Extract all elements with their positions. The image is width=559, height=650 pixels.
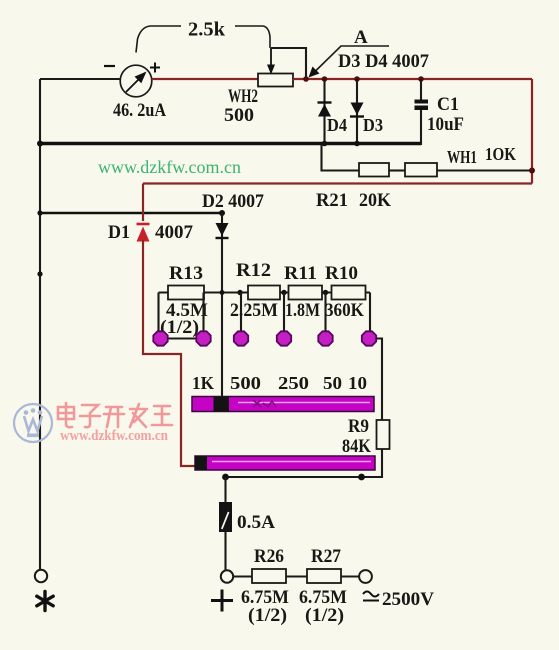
svg-text:0.5A: 0.5A — [237, 512, 275, 533]
svg-text:R26: R26 — [254, 546, 284, 567]
svg-text:1OK: 1OK — [485, 144, 516, 164]
label A with leader arrow — [309, 27, 390, 78]
wire R21 branch from bus — [322, 145, 360, 171]
wire resistor chain — [159, 291, 371, 293]
svg-text:10uF: 10uF — [427, 114, 464, 135]
diode D3 — [350, 79, 364, 144]
svg-text:R27: R27 — [311, 546, 341, 567]
node common rail left — [222, 474, 229, 481]
meter plus terminal label — [150, 63, 160, 73]
svg-text:360K: 360K — [325, 300, 364, 321]
diode D1 red — [137, 224, 150, 242]
meter M1 46.2uA — [120, 65, 152, 97]
node at left second bus — [37, 210, 42, 215]
svg-text:1K: 1K — [192, 373, 214, 393]
potentiometer WH2 500 — [258, 48, 293, 87]
wire second bus to D2 — [40, 212, 222, 215]
wire fuse to terminal — [224, 532, 226, 570]
wire terminal to R26 — [234, 575, 253, 577]
watermark chinese char 5 — [152, 406, 172, 425]
diode D2 — [216, 213, 229, 397]
svg-text:2500V: 2500V — [382, 589, 434, 610]
svg-text:D3: D3 — [363, 115, 383, 135]
annotation bracket right of 2.5k — [235, 26, 270, 48]
svg-text:84K: 84K — [342, 436, 371, 457]
terminal common star — [35, 570, 47, 582]
wire WH2 wiper loop — [271, 48, 306, 79]
resistor R10 — [332, 286, 366, 300]
switch contact 1 — [153, 331, 167, 345]
watermark logo dots — [24, 408, 43, 437]
resistor R9 — [377, 420, 390, 449]
wire R26 to R27 — [286, 575, 307, 577]
watermark chinese char 4 — [130, 404, 147, 427]
node WH1 right rail — [529, 168, 535, 174]
node common rail right — [358, 474, 365, 481]
svg-text:D4: D4 — [327, 115, 347, 135]
node chain tap5 — [323, 290, 328, 295]
svg-text:R12: R12 — [236, 260, 271, 281]
svg-text:R13: R13 — [169, 263, 203, 284]
meter minus terminal label — [104, 65, 115, 67]
node D3 top — [354, 76, 360, 82]
resistor R11 — [289, 286, 323, 300]
resistor R26 — [252, 569, 286, 583]
switch contact 6 — [362, 331, 376, 345]
svg-text:www.dzkfw.com.cn: www.dzkfw.com.cn — [60, 428, 169, 444]
svg-text:WH1: WH1 — [447, 147, 477, 167]
svg-text:D2 4007: D2 4007 — [202, 191, 264, 212]
svg-text:(1/2): (1/2) — [305, 605, 344, 626]
wire contact6 to R9 column — [377, 339, 383, 421]
wire common rail to fuse — [224, 477, 226, 502]
wire R27 to HV terminal — [341, 575, 359, 577]
node chain D2 crossing — [220, 290, 225, 295]
svg-text:250: 250 — [278, 373, 309, 393]
svg-text:2.25M: 2.25M — [230, 300, 278, 321]
resistor R12 — [248, 286, 280, 300]
wire thick bus — [40, 142, 421, 146]
node chain tap3 — [237, 290, 242, 295]
label star asterisk — [37, 592, 53, 611]
switch contact 3 — [234, 331, 248, 345]
wire red bottom horizontal — [143, 182, 532, 184]
wire red D1 branch upper — [142, 184, 144, 222]
svg-text:46. 2uA: 46. 2uA — [113, 100, 166, 121]
svg-text:R21: R21 — [316, 190, 348, 211]
node C1 top — [418, 76, 424, 82]
fuse 0.5A — [219, 502, 232, 532]
node D2 top — [219, 210, 225, 216]
wire red D1 branch lower with step — [143, 240, 196, 466]
svg-text:D1: D1 — [108, 222, 130, 243]
node D4 top — [322, 76, 328, 82]
resistor R27 — [307, 569, 341, 583]
wire red WH2 to right rail — [293, 78, 532, 80]
svg-text:C1: C1 — [437, 94, 459, 115]
wire contact1 to contact2 link — [167, 337, 197, 339]
resistor R13 — [168, 286, 204, 300]
wire red meter to WH2 — [152, 78, 259, 80]
label approx symbol — [363, 592, 379, 601]
label plus sign — [211, 590, 233, 612]
node A junction — [303, 76, 309, 82]
switch contact 2 — [196, 331, 210, 345]
svg-text:R10: R10 — [325, 263, 358, 284]
svg-text:(1/2): (1/2) — [248, 605, 287, 626]
svg-text:1.8M: 1.8M — [285, 300, 320, 321]
svg-text:500: 500 — [230, 373, 261, 393]
switch contact 5 — [318, 331, 332, 345]
rheostat WH1 — [405, 163, 437, 177]
watermark chinese char 1 — [58, 403, 74, 427]
node D4 at bus — [322, 141, 328, 147]
svg-text:R11: R11 — [284, 263, 317, 284]
wire red right vertical rail — [531, 79, 533, 184]
wire left vertical rail — [39, 79, 41, 570]
wire R9 bottom to common rail — [226, 449, 383, 477]
wire R21 to WH1 — [389, 169, 405, 171]
watermark chinese char 2 — [80, 405, 100, 427]
node at left bus junction — [37, 141, 43, 147]
svg-text:20K: 20K — [359, 190, 391, 211]
svg-text:D3 D4 4007: D3 D4 4007 — [338, 51, 429, 72]
watermark logo circle — [14, 404, 52, 442]
wire tap verticals to contacts — [159, 293, 371, 333]
svg-text:WH2: WH2 — [228, 86, 258, 107]
watermark chinese char 3 — [104, 407, 124, 427]
resistor R21 — [359, 163, 389, 177]
terminal plus — [221, 570, 233, 582]
wire top left horizontal — [40, 78, 120, 80]
capacitor C1 10uF — [415, 79, 429, 145]
node on left rail — [37, 271, 42, 276]
svg-text:www.dzkfw.com.cn: www.dzkfw.com.cn — [98, 157, 241, 177]
switch wafer bar 2 — [195, 456, 375, 470]
svg-text:4007: 4007 — [155, 222, 194, 243]
switch contact 4 — [277, 331, 291, 345]
svg-text:R9: R9 — [348, 416, 369, 437]
switch wafer bar 1 — [192, 397, 374, 412]
svg-text:10: 10 — [348, 373, 367, 393]
diode D4 — [318, 79, 332, 144]
svg-text:50: 50 — [323, 373, 342, 393]
wire WH1 to right rail — [437, 169, 531, 171]
terminal HV 2500V — [359, 570, 372, 583]
node chain tap4 — [281, 290, 286, 295]
annotation bracket left of 2.5k — [136, 26, 181, 53]
node D3 at bus — [354, 141, 360, 147]
svg-text:A: A — [354, 27, 368, 48]
svg-text:2.5k: 2.5k — [188, 19, 226, 41]
svg-text:500: 500 — [224, 105, 254, 126]
